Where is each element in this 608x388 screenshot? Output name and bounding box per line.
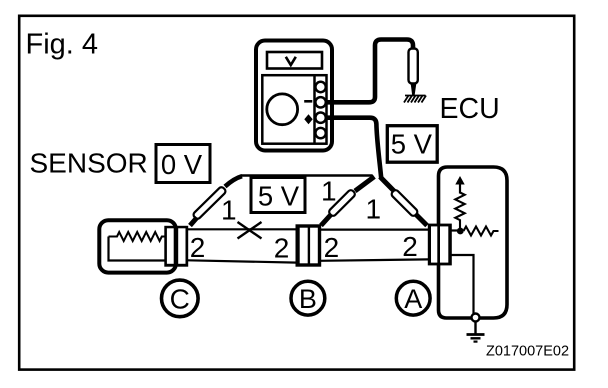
svg-text:C: C xyxy=(170,283,190,314)
svg-text:5 V: 5 V xyxy=(391,129,433,160)
svg-text:ECU: ECU xyxy=(440,93,500,125)
svg-text:1: 1 xyxy=(221,195,237,226)
svg-text:2: 2 xyxy=(324,232,340,263)
svg-text:A: A xyxy=(404,284,422,314)
svg-text:0 V: 0 V xyxy=(161,149,203,180)
svg-text:Z017007E02: Z017007E02 xyxy=(486,344,569,360)
svg-text:1: 1 xyxy=(321,176,337,207)
svg-text:5 V: 5 V xyxy=(258,181,300,212)
svg-text:2: 2 xyxy=(402,231,418,262)
svg-text:SENSOR: SENSOR xyxy=(30,148,148,179)
svg-text:2: 2 xyxy=(190,232,206,263)
svg-text:Fig. 4: Fig. 4 xyxy=(26,29,99,61)
svg-text:1: 1 xyxy=(366,194,382,225)
svg-text:B: B xyxy=(299,284,317,314)
svg-text:2: 2 xyxy=(274,233,290,264)
